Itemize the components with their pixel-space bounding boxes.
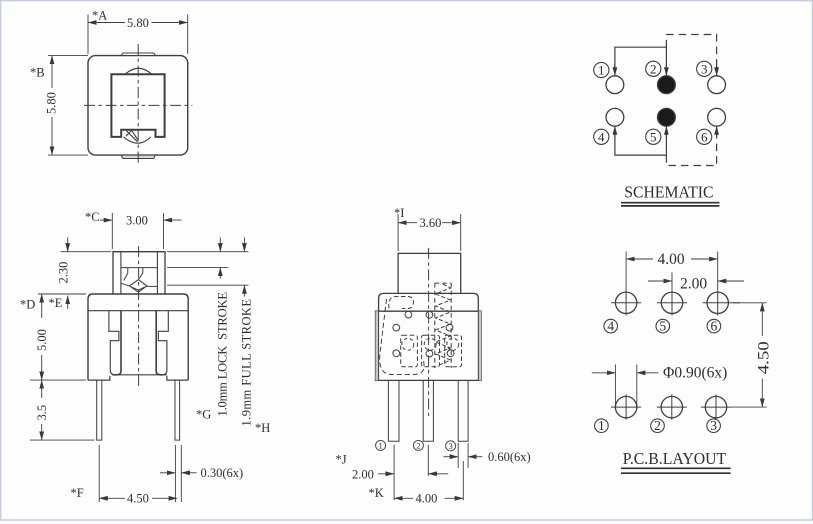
svg-text:*H: *H (255, 421, 270, 435)
stroke dim extension lines (167, 267, 248, 285)
arrow into contact 6 (716, 126, 718, 136)
arrow into contact 3 (716, 66, 718, 76)
right terminal step (158, 311, 168, 375)
horizontal centerline (84, 104, 192, 106)
dim 3.00 right outside arrow (164, 219, 182, 221)
dim *B 5.80 extension lines (48, 56, 88, 156)
button bottom dome arc (124, 137, 151, 143)
dim 3.60 extension lines (398, 214, 461, 251)
svg-text:6: 6 (701, 129, 708, 144)
title underline double (621, 468, 731, 473)
pin label circle 2 (646, 61, 661, 76)
dim 0.30 arrows (160, 472, 175, 474)
contact 4 (606, 108, 624, 126)
svg-text:5: 5 (650, 129, 657, 144)
svg-text:Φ0.90(6x): Φ0.90(6x) (663, 365, 727, 382)
dim 4.50 dimension line (761, 303, 763, 336)
pin 3 (side) (458, 380, 468, 441)
dim 0.60 extension lines (458, 443, 468, 468)
wire pole2 solid (615, 132, 667, 155)
hole 5 (657, 290, 687, 315)
dim 3.60 dimension line (398, 222, 417, 224)
hole 3 (701, 394, 731, 419)
svg-text:*E: *E (49, 296, 63, 310)
svg-text:4: 4 (607, 319, 614, 334)
dim 3.00 extension lines (112, 213, 163, 249)
svg-text:2.00: 2.00 (680, 275, 707, 292)
dim 4.00 extension lines (626, 252, 718, 291)
svg-text:3: 3 (701, 61, 708, 76)
dim 0.90 extension lines (615, 365, 636, 410)
main body (side) (376, 311, 482, 380)
dim *B 5.80 dimension line (51, 56, 53, 88)
plunger outline (side) (398, 253, 461, 293)
pin 1 (side) (388, 380, 399, 441)
flange line (88, 310, 188, 312)
dim 3.00 leader arrow from *C (100, 219, 112, 221)
dim 2.00 arrows outside (648, 280, 672, 282)
svg-text:2: 2 (654, 418, 661, 433)
contact 6 (708, 108, 726, 126)
button top dome arc (126, 68, 152, 74)
pad label circle 5 (656, 319, 670, 333)
side wall shading left (376, 311, 379, 380)
contact 2 (common, filled) (658, 76, 676, 94)
hidden contact plate loop (380, 299, 424, 375)
dim 4.00 dimension line (626, 258, 653, 260)
hidden shaft dashed lines (435, 283, 451, 368)
switch body outline (front) (88, 294, 188, 380)
plunger top extension line (61, 251, 249, 253)
hidden spring zigzag (436, 284, 451, 366)
svg-text:6: 6 (711, 319, 718, 334)
svg-text:*A: *A (92, 9, 107, 23)
pin label circle 3 (697, 61, 712, 76)
hole 4 (611, 290, 641, 315)
contact 5 (common, filled) (658, 108, 676, 126)
svg-text:4.50: 4.50 (127, 492, 149, 506)
rivet circles (405, 311, 412, 318)
cam diamond inner edge (131, 287, 145, 290)
svg-text:*B: *B (30, 66, 45, 80)
pin 2 (side) (423, 380, 433, 441)
svg-text:*K: *K (369, 486, 384, 500)
dim 3.5 dimension line (41, 380, 43, 398)
svg-text:*C: *C (85, 210, 100, 224)
dim 4.50 extension lines (99, 445, 181, 502)
svg-text:1.0mm LOCK STROKE: 1.0mm LOCK STROKE (216, 292, 230, 417)
svg-text:3.00: 3.00 (126, 214, 148, 228)
dim 4.00 dimension line (394, 497, 413, 499)
hole 1 (611, 394, 641, 419)
hidden terminal box 1 (401, 335, 418, 367)
svg-text:0.30(6x): 0.30(6x) (201, 466, 244, 480)
svg-text:3: 3 (448, 441, 452, 451)
dim *A 5.80 dimension line (88, 22, 125, 24)
pin number 3 circle (446, 441, 456, 451)
title underline double (621, 203, 719, 206)
pad label circle 2 (651, 419, 665, 433)
arrow into contact 4 (614, 126, 616, 138)
svg-text:3.60: 3.60 (420, 216, 442, 230)
plunger shaft slot (121, 268, 157, 281)
pin row B (right) (175, 380, 180, 440)
hidden terminal box 3 (445, 335, 462, 367)
pad label circle 6 (707, 319, 721, 333)
full stroke arrows (243, 238, 245, 252)
bottom notch ledge (121, 130, 155, 137)
hole 2 (657, 394, 687, 419)
vertical centerline (137, 44, 139, 166)
pin number 2 circle (413, 440, 423, 450)
cam guide diagonals (121, 283, 157, 286)
dim 2.30 arrows (67, 238, 69, 252)
dim 4.50 dimension line (99, 497, 125, 499)
pin row A (left) (97, 380, 102, 440)
svg-text:3: 3 (710, 418, 717, 433)
arrow into contact 1 (614, 64, 616, 76)
hole 6 (703, 290, 740, 315)
pin label circle 5 (646, 129, 661, 144)
dim 0.90 arrows (592, 372, 616, 374)
top mounting tab (121, 53, 155, 56)
body bottom edge with recess (88, 376, 188, 380)
SECTION:SIDEVIEW (376, 214, 483, 500)
svg-text:2: 2 (650, 61, 657, 76)
side wall shading right (478, 311, 481, 380)
SECTION:FRONTVIEW (30, 213, 248, 502)
svg-text:4.00: 4.00 (416, 492, 438, 506)
lock stroke arrows (219, 238, 221, 252)
svg-text:SCHEMATIC: SCHEMATIC (624, 183, 713, 202)
dim 4.00/2.00 extension lines below pins (394, 445, 463, 501)
svg-text:4.50: 4.50 (756, 341, 773, 374)
SECTION:TOPVIEW (48, 15, 192, 167)
recess floor line (112, 374, 167, 376)
pushbutton (inner rect) (111, 74, 164, 137)
svg-text:4.00: 4.00 (658, 251, 685, 268)
pin label circle 1 (594, 62, 609, 77)
dim 4.50 extension lines (731, 303, 767, 407)
pin label circle 4 (594, 129, 609, 144)
plunger inner walls (121, 252, 157, 294)
svg-text:5.80: 5.80 (45, 92, 59, 114)
wire pole1 solid (615, 47, 667, 70)
contact 3 (708, 76, 726, 94)
arrow into contact 5 (665, 126, 667, 138)
SECTION:PCB (592, 252, 767, 433)
wire pole2 dashed (movable) (666, 134, 716, 166)
pin number 1 circle (376, 440, 386, 450)
hidden cam track hook (389, 297, 414, 309)
inner pocket right wall (156, 311, 163, 375)
centerline (side) (428, 248, 430, 416)
bottom mounting tab (121, 155, 155, 158)
keying hatch diagonals (126, 130, 138, 141)
pad label circle 1 (595, 419, 609, 433)
pad label circle 4 (604, 319, 618, 333)
svg-text:2.30: 2.30 (57, 262, 71, 284)
contact 1 (606, 76, 624, 94)
hidden rivet circles dashed (402, 338, 414, 350)
svg-text:*F: *F (71, 486, 84, 500)
hidden terminal box 2 (422, 335, 440, 367)
inner wall lines (379, 311, 479, 380)
arrow into contact 2 (665, 64, 667, 76)
dim *A 5.80 extension lines (88, 15, 188, 55)
cover (side) (379, 293, 479, 311)
svg-text:*D: *D (20, 298, 35, 312)
svg-text:0.60(6x): 0.60(6x) (488, 450, 531, 464)
body bottom extension line (30, 379, 86, 381)
svg-text:5: 5 (659, 319, 666, 334)
svg-text:4: 4 (598, 129, 605, 144)
left terminal step (109, 311, 119, 375)
svg-text:*G: *G (196, 408, 211, 422)
SECTION:SCHEMATIC (594, 35, 726, 166)
switch body outline (top view) (88, 56, 188, 156)
svg-text:3.5: 3.5 (35, 405, 49, 421)
svg-text:P.C.B.LAYOUT: P.C.B.LAYOUT (623, 449, 727, 468)
svg-text:1.9mm FULL STROKE: 1.9mm FULL STROKE (240, 299, 254, 427)
dim 5.00 dimension line (41, 294, 43, 318)
dim 2.00 arrows (378, 473, 394, 475)
svg-text:5.00: 5.00 (35, 329, 49, 351)
svg-text:5.80: 5.80 (127, 16, 149, 30)
svg-text:1: 1 (378, 440, 382, 450)
svg-text:*J: *J (336, 453, 347, 467)
plunger outline (113, 252, 165, 294)
cam diamond (130, 280, 147, 293)
svg-text:*I: *I (394, 206, 404, 220)
pin label circle 6 (697, 129, 712, 144)
svg-text:2.00: 2.00 (352, 468, 374, 482)
svg-text:1: 1 (598, 63, 605, 78)
wire pole1 dashed (movable) (666, 35, 716, 69)
svg-text:2: 2 (416, 440, 420, 450)
svg-text:1: 1 (598, 418, 605, 433)
dim 0.60 arrows (444, 456, 459, 458)
pad label circle 3 (707, 419, 721, 433)
inner pocket left wall (114, 311, 121, 375)
center dash-dot line (138, 246, 140, 388)
pin bottom extension line (30, 439, 95, 441)
body top extension line (38, 293, 86, 295)
